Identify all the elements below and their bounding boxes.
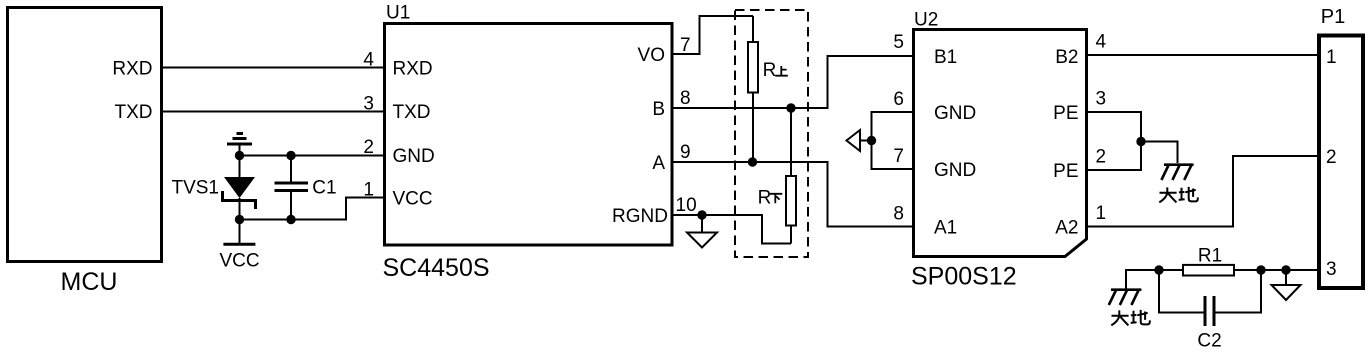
svg-text:RXD: RXD <box>393 58 433 79</box>
svg-text:9: 9 <box>680 142 691 163</box>
arrow symbol at U2 GND <box>847 130 872 151</box>
svg-text:GND: GND <box>393 146 435 167</box>
svg-text:B: B <box>652 99 665 120</box>
wire P1 pin3 net <box>1126 269 1319 271</box>
node junction rail-C1 <box>286 215 295 224</box>
svg-text:1: 1 <box>1096 203 1107 224</box>
svg-text:PE: PE <box>1053 161 1078 182</box>
svg-text:1: 1 <box>1326 47 1337 68</box>
diode TVS1 <box>171 156 256 220</box>
svg-text:U2: U2 <box>914 10 938 31</box>
ground symbol at RGND <box>687 215 717 248</box>
label dadi (earth) bottom <box>1111 310 1150 326</box>
wire B2 to P1 pin1 <box>1087 54 1319 56</box>
svg-text:4: 4 <box>1096 32 1107 53</box>
resistor R-down <box>758 108 796 244</box>
earth symbol above TVS1 <box>227 134 252 157</box>
svg-text:PE: PE <box>1053 103 1078 124</box>
svg-text:8: 8 <box>893 204 904 225</box>
svg-text:SC4450S: SC4450S <box>383 254 490 282</box>
svg-text:GND: GND <box>934 160 976 181</box>
svg-text:C1: C1 <box>312 178 336 199</box>
power symbol VCC <box>219 220 259 272</box>
svg-text:R1: R1 <box>1198 245 1222 266</box>
wire A2 to P1 pin2 <box>1087 156 1319 227</box>
svg-text:P1: P1 <box>1321 6 1345 28</box>
node junction PE bracket <box>1136 137 1145 146</box>
wire U2 GND bracket pins 6-7 <box>872 112 914 169</box>
label shang subscript of R-up <box>775 66 788 76</box>
node junction R1 right <box>1256 265 1265 274</box>
svg-text:2: 2 <box>1326 147 1337 168</box>
svg-text:RGND: RGND <box>612 206 668 227</box>
wire earth branch P1 pin3 <box>1126 270 1159 290</box>
node junction rail-TVS <box>235 215 244 224</box>
svg-text:U1: U1 <box>386 3 410 24</box>
op-amp U1 SC4450S box <box>383 3 673 283</box>
svg-text:VO: VO <box>638 45 665 66</box>
node junction RGND ground <box>697 210 706 219</box>
earth symbol at P1 pin3 <box>1109 290 1142 305</box>
MCU box <box>8 8 162 297</box>
svg-text:R: R <box>763 60 777 81</box>
wire RXD MCU to U1 <box>161 67 386 69</box>
svg-text:3: 3 <box>1096 89 1107 110</box>
svg-text:TXD: TXD <box>393 102 431 123</box>
IC U2 SP00S12 box <box>911 10 1087 291</box>
svg-text:C2: C2 <box>1197 331 1221 352</box>
svg-text:MCU: MCU <box>61 268 118 296</box>
svg-text:A2: A2 <box>1055 217 1078 238</box>
label xia subscript of R-down <box>770 194 782 204</box>
svg-text:A: A <box>652 153 665 174</box>
ground symbol at P1 pin3 <box>1272 270 1301 300</box>
resistor R1 <box>1183 245 1234 275</box>
svg-text:2: 2 <box>1096 147 1107 168</box>
wire PE to earth <box>1141 142 1178 164</box>
wire VCC pin1 step <box>239 198 386 220</box>
node junction ground P1 <box>1281 265 1290 274</box>
svg-text:TVS1: TVS1 <box>171 177 219 198</box>
node junction R1 left <box>1154 265 1163 274</box>
svg-text:GND: GND <box>934 103 976 124</box>
svg-text:4: 4 <box>363 50 374 71</box>
wire B net <box>671 56 913 108</box>
capacitor C1 <box>275 156 337 220</box>
node junction GND bracket <box>867 136 876 145</box>
svg-text:VCC: VCC <box>219 251 259 272</box>
node junction GND-TVS <box>235 151 244 160</box>
svg-text:10: 10 <box>676 195 697 216</box>
wire A net <box>671 162 913 227</box>
wire VO riser <box>671 16 753 54</box>
wire TXD MCU to U1 <box>161 111 386 113</box>
svg-text:3: 3 <box>1326 259 1337 280</box>
svg-text:VCC: VCC <box>393 188 433 209</box>
svg-text:SP00S12: SP00S12 <box>911 263 1017 291</box>
svg-text:3: 3 <box>363 93 374 114</box>
svg-text:TXD: TXD <box>115 102 153 123</box>
svg-text:RXD: RXD <box>112 58 152 79</box>
node junction B and R-down <box>786 103 795 112</box>
wire RGND net <box>671 215 791 244</box>
svg-text:A1: A1 <box>934 217 957 238</box>
svg-text:B1: B1 <box>934 47 957 68</box>
svg-text:R: R <box>758 188 772 209</box>
wire GND rail <box>239 155 386 157</box>
label dadi (earth) at PE <box>1159 187 1198 203</box>
node junction GND-C1 <box>286 151 295 160</box>
svg-text:6: 6 <box>893 89 904 110</box>
wire PE bracket pins 3-2 <box>1087 112 1141 170</box>
svg-text:7: 7 <box>893 146 904 167</box>
earth symbol at PE <box>1161 165 1193 180</box>
node junction A and R-up <box>748 157 757 166</box>
svg-text:B2: B2 <box>1055 47 1078 68</box>
capacitor C2 <box>1159 270 1261 352</box>
svg-text:8: 8 <box>680 88 691 109</box>
svg-text:5: 5 <box>893 32 904 53</box>
dashed option box <box>735 10 808 257</box>
connector P1 box <box>1319 6 1363 288</box>
svg-text:7: 7 <box>680 35 691 56</box>
resistor R-up <box>748 16 776 162</box>
